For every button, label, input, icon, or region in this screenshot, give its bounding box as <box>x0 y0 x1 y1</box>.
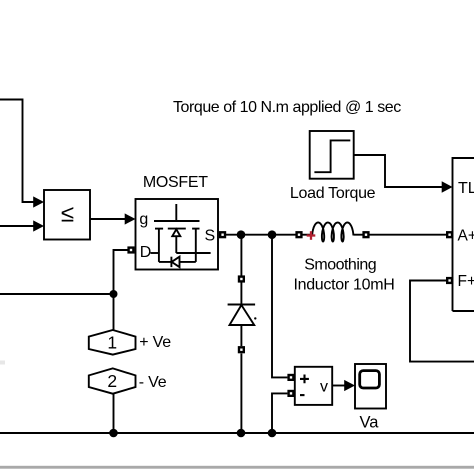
svg-text:2: 2 <box>107 371 117 391</box>
svg-text:v: v <box>320 379 328 396</box>
svg-text:D: D <box>140 244 152 261</box>
svg-text:≤: ≤ <box>61 200 74 227</box>
svg-text:F+: F+ <box>458 273 474 290</box>
svg-text:Load Torque: Load Torque <box>290 185 376 202</box>
svg-text:g: g <box>139 211 148 228</box>
svg-text:Inductor 10mH: Inductor 10mH <box>293 277 394 294</box>
svg-text:- Ve: - Ve <box>139 374 167 391</box>
svg-text:Smoothing: Smoothing <box>304 257 376 274</box>
svg-text:+ Ve: + Ve <box>139 334 171 351</box>
svg-text:Torque of 10 N.m applied @ 1 s: Torque of 10 N.m applied @ 1 sec <box>173 99 401 116</box>
svg-text:A+: A+ <box>458 227 474 244</box>
svg-text:Va: Va <box>360 414 380 432</box>
svg-text:MOSFET: MOSFET <box>143 174 208 191</box>
svg-text:1: 1 <box>107 332 117 352</box>
svg-text:TL: TL <box>458 180 474 197</box>
svg-text:S: S <box>205 228 216 245</box>
